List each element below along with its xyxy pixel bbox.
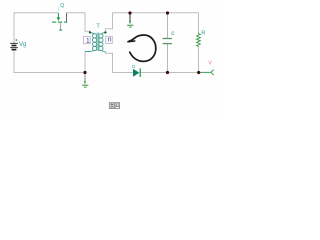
wire capacitor column [167,13,169,38]
ground (primary bottom) [82,74,88,88]
source vertical to rail [66,13,68,22]
battery source Vg [10,39,18,49]
diode D [133,68,140,77]
circular current arrow [128,35,156,61]
wire primary bottom lead [84,52,86,73]
capacitor C [163,39,172,44]
gate terminal bar [59,29,62,30]
wire secondary top lead [105,13,112,29]
wire bottom rail secondary to diode [113,72,133,74]
node: junction dot cap bottom [166,71,169,74]
secondary phase dot [104,31,106,33]
wire bottom rail left (source to ground node) [14,50,85,72]
primary top connector [90,33,94,34]
svg-text:c: c [171,30,175,37]
wire top rail left (source to MOSFET) [14,13,58,43]
caption 图四 [109,103,119,109]
ground (secondary top rail) [127,14,133,28]
voltage probe V [200,70,214,75]
wire top rail secondary [113,12,199,14]
wire diode to capacitor node [141,72,199,74]
secondary stub from jog to dot [104,29,106,32]
gate lead [60,23,62,30]
wire resistor column [198,13,200,33]
arrow down [57,17,61,21]
node: junction dot top rail / ground [128,11,131,14]
svg-text:T: T [96,23,100,29]
transformer T [84,29,113,53]
svg-text:R: R [201,31,205,37]
svg-text:Vg: Vg [19,42,26,48]
channel dashes [52,21,56,23]
primary phase dot [89,31,91,33]
faint drain stub above rail [57,7,59,13]
secondary winding coil [99,34,103,51]
secondary bottom connector [101,50,105,53]
svg-text:n: n [108,37,112,44]
wire secondary bottom lead [105,53,112,72]
node: junction dot cap top [166,11,169,14]
resistor R [197,33,201,47]
secondary top connector [101,33,105,34]
svg-text:D: D [132,64,135,69]
core lines [96,33,98,52]
wire top rail MOSFET to transformer primary [67,13,91,32]
turns box 1 [84,37,91,44]
svg-text:1: 1 [86,38,90,45]
primary bottom connector [85,50,95,51]
turns box n [106,36,113,43]
node: junction dot resistor bottom / probe [197,71,200,74]
svg-text:V: V [208,61,212,67]
primary winding coil [93,34,97,51]
MOSFET Q [52,7,67,31]
node: junction dot bottom rail / ground [83,71,86,74]
svg-text:Q: Q [60,3,64,9]
drain lead down [57,13,59,18]
